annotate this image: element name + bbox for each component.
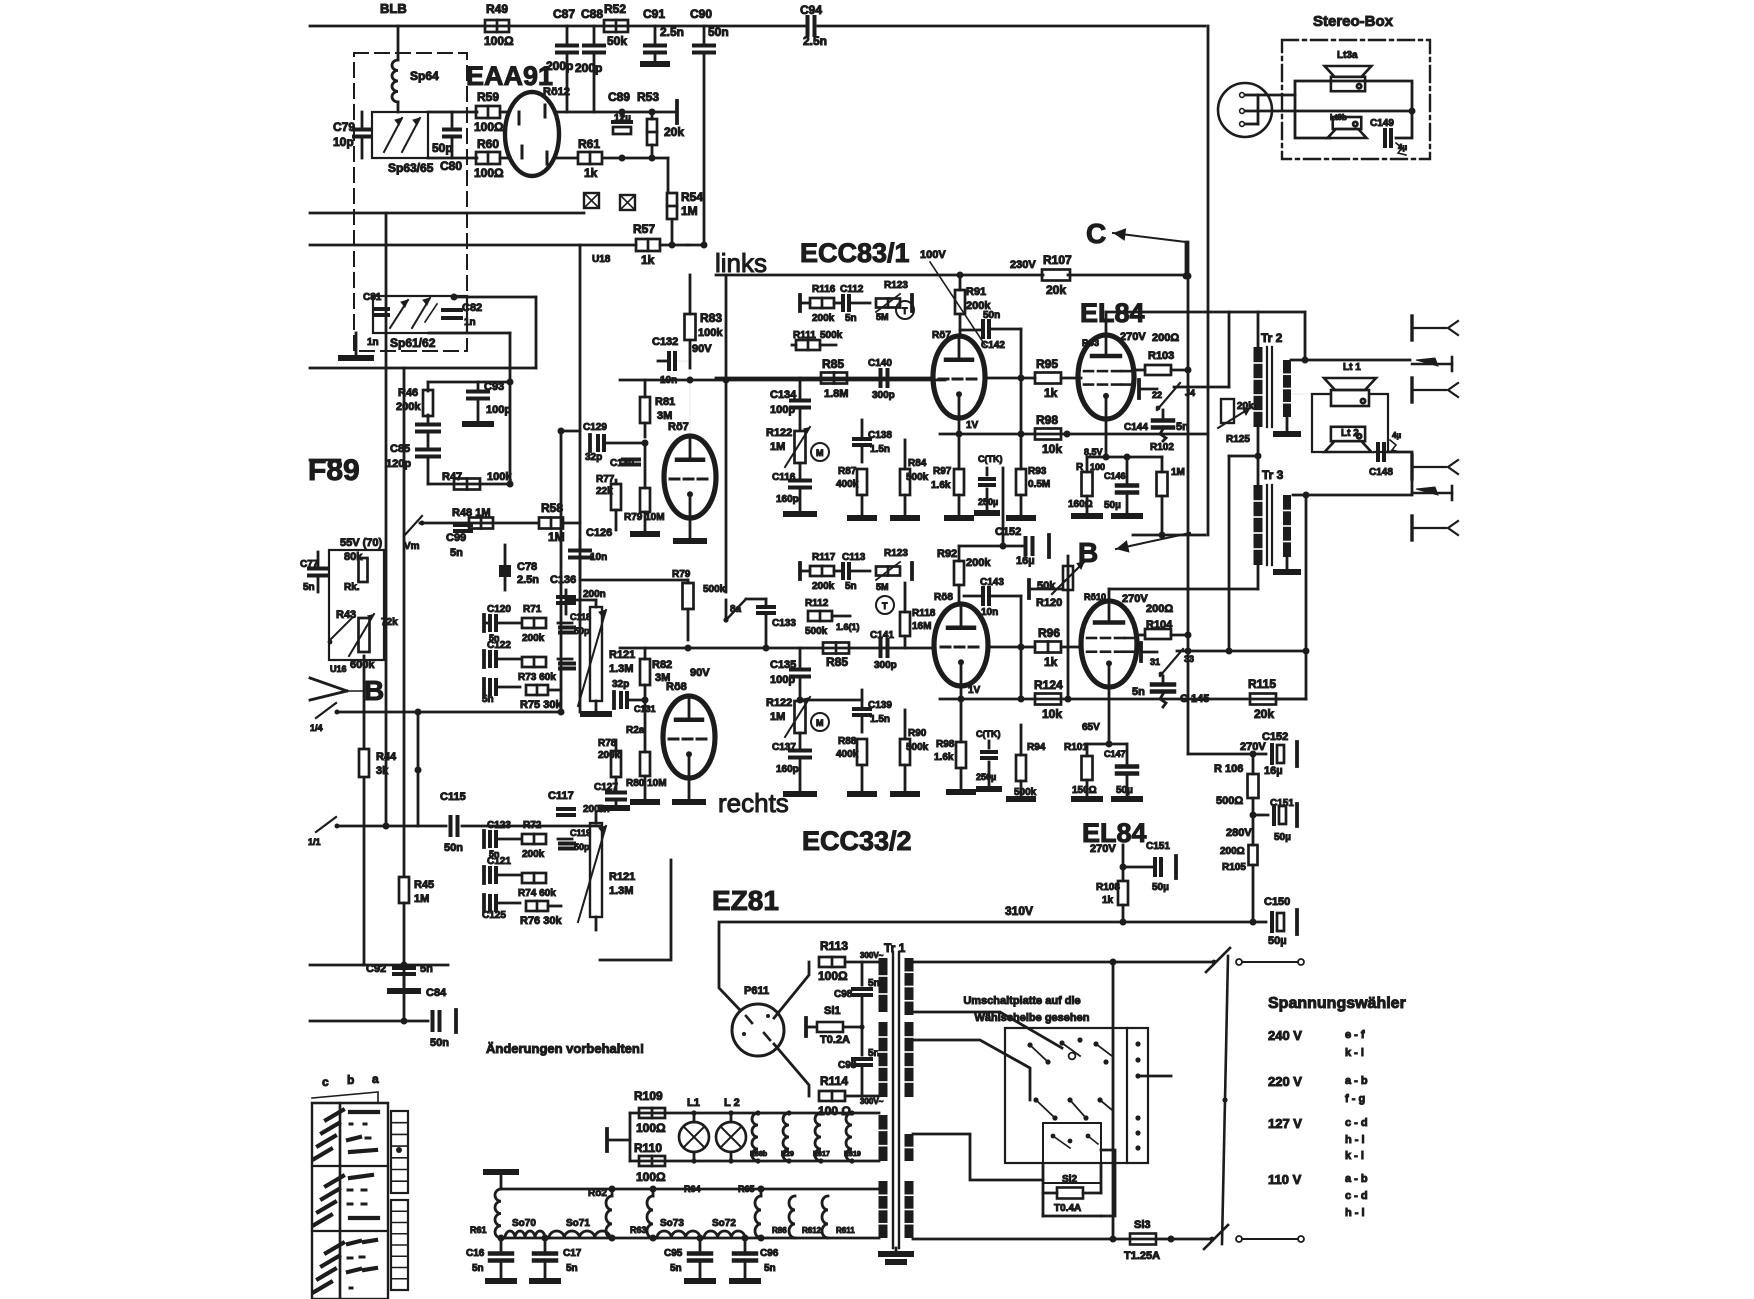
wire tuned to R59 <box>428 112 477 158</box>
svg-text:R: R <box>1076 462 1084 473</box>
svg-text:C81: C81 <box>363 292 382 303</box>
svg-text:C147: C147 <box>1104 749 1126 759</box>
resistor R100 <box>1068 457 1105 512</box>
svg-text:R79 10M: R79 10M <box>624 512 665 523</box>
Tr1 winding lower left <box>879 1115 888 1238</box>
svg-text:80k: 80k <box>344 551 363 563</box>
wire grid link lower <box>797 697 863 704</box>
svg-text:Spannungswähler: Spannungswähler <box>1268 995 1406 1012</box>
capacitor C149 <box>1370 118 1407 155</box>
wire cathode row 1V <box>940 420 1208 438</box>
wire speaker common right <box>1388 452 1412 495</box>
wire C115 to lower pot <box>595 812 598 930</box>
jack pair top <box>1412 316 1458 340</box>
coil R611b vertical <box>836 1226 855 1235</box>
svg-text:R121: R121 <box>609 649 635 661</box>
svg-text:c: c <box>322 1075 329 1089</box>
svg-text:1k: 1k <box>584 166 598 180</box>
svg-text:1M: 1M <box>1171 467 1185 478</box>
capacitor C92 <box>363 962 448 992</box>
svg-text:100Ω: 100Ω <box>474 120 504 134</box>
wire bus y712 <box>337 709 565 716</box>
svg-text:R617: R617 <box>813 1151 830 1158</box>
svg-text:R124: R124 <box>1034 678 1063 692</box>
svg-text:C17: C17 <box>563 1248 582 1259</box>
svg-text:R112: R112 <box>805 598 829 609</box>
capacitor C80 <box>432 112 462 173</box>
label Aenderungen <box>486 1041 644 1056</box>
capacitor C113 <box>834 552 870 592</box>
svg-text:C78: C78 <box>517 561 537 573</box>
svg-text:50n: 50n <box>430 1037 449 1049</box>
svg-text:P611: P611 <box>744 985 769 997</box>
pot R125 <box>1218 399 1254 445</box>
svg-text:50µ: 50µ <box>1268 935 1287 947</box>
svg-text:C138: C138 <box>868 430 892 441</box>
speaker Lt1 <box>1324 362 1376 406</box>
wire DIN to box <box>1258 94 1295 97</box>
svg-text:R57: R57 <box>633 222 655 236</box>
svg-text:C16: C16 <box>466 1248 485 1259</box>
pot R123 lower <box>876 548 912 592</box>
svg-text:R121: R121 <box>609 871 635 883</box>
svg-text:Umschaltplatte auf die: Umschaltplatte auf die <box>963 995 1080 1007</box>
svg-text:8.5V: 8.5V <box>1084 447 1103 457</box>
svg-text:R46: R46 <box>398 387 418 399</box>
svg-text:C137: C137 <box>772 742 796 753</box>
capacitor C121 <box>484 856 520 883</box>
selector inner contacts <box>1051 1134 1098 1148</box>
mains switch lever <box>1222 956 1228 1244</box>
svg-text:100V: 100V <box>920 249 946 261</box>
svg-text:5n: 5n <box>845 581 857 592</box>
svg-text:C134: C134 <box>770 389 797 401</box>
resistor R71 <box>522 604 546 644</box>
svg-text:50p: 50p <box>574 626 590 636</box>
svg-text:R79: R79 <box>672 569 691 580</box>
resistor R47 <box>442 471 512 490</box>
svg-text:50µ: 50µ <box>1116 785 1133 796</box>
svg-text:R64: R64 <box>684 1184 701 1194</box>
svg-text:1.5n: 1.5n <box>870 714 890 725</box>
svg-text:55V (70): 55V (70) <box>340 537 383 549</box>
lamp L1 <box>679 1097 709 1164</box>
capacitor C127 <box>594 782 625 815</box>
capacitor CTK upper <box>978 454 1003 510</box>
tuned circuit Sp61/62 box <box>373 296 467 333</box>
svg-text:1n: 1n <box>367 337 379 348</box>
wire Tr2 sec low <box>1287 393 1312 395</box>
svg-text:R104: R104 <box>1146 619 1173 631</box>
wire filter rails <box>498 1186 880 1242</box>
svg-text:R61: R61 <box>470 1225 487 1235</box>
svg-text:h - i: h - i <box>1345 1207 1365 1219</box>
svg-text:10n: 10n <box>590 552 607 563</box>
wire y648 grid bus lower <box>620 645 935 652</box>
svg-text:50p: 50p <box>574 842 590 852</box>
svg-text:C91: C91 <box>643 7 665 21</box>
coil R61 vertical <box>470 1189 501 1238</box>
svg-text:R118: R118 <box>912 608 936 619</box>
svg-text:1k: 1k <box>1044 655 1058 669</box>
capacitor C93 <box>465 381 511 424</box>
resistor R94 <box>1014 725 1046 798</box>
svg-text:So71: So71 <box>566 1218 590 1229</box>
capacitor C96 <box>732 1235 779 1282</box>
triode R68 <box>934 592 988 686</box>
svg-text:R123: R123 <box>884 548 908 559</box>
capacitor C150 <box>1250 896 1298 947</box>
svg-text:R611: R611 <box>836 1226 855 1235</box>
svg-text:150Ω: 150Ω <box>1072 785 1097 796</box>
selector contacts lower <box>1033 1097 1112 1120</box>
vertical links feed <box>725 275 728 592</box>
pentode EL84 lower <box>1081 592 1137 687</box>
svg-text:20k: 20k <box>664 125 684 139</box>
capacitor C143 <box>964 577 1021 618</box>
wire Tr1 top right <box>913 959 1214 966</box>
resistor R73 <box>518 657 556 683</box>
svg-text:C95: C95 <box>664 1248 683 1259</box>
svg-text:R59: R59 <box>477 90 499 104</box>
svg-text:Vm: Vm <box>404 541 420 552</box>
heater coil b <box>781 1110 794 1163</box>
wire BLB drop <box>397 26 400 60</box>
wire bus y368 <box>310 367 536 370</box>
svg-text:R85: R85 <box>826 655 848 669</box>
svg-text:90V: 90V <box>690 667 710 679</box>
svg-text:Tr 2: Tr 2 <box>1261 331 1283 345</box>
svg-text:5n: 5n <box>566 1263 578 1274</box>
svg-text:R125: R125 <box>1226 434 1250 445</box>
svg-text:C(TK): C(TK) <box>976 729 1001 739</box>
wire Tr3 out to jacks <box>1293 493 1410 496</box>
svg-text:Lt3b: Lt3b <box>1330 113 1347 122</box>
svg-text:2.5n: 2.5n <box>660 25 684 39</box>
capacitor C97 <box>834 962 880 1030</box>
svg-text:R74 60k: R74 60k <box>518 888 556 899</box>
svg-text:R116: R116 <box>812 284 836 295</box>
svg-text:50n: 50n <box>708 25 729 39</box>
svg-text:c - d: c - d <box>1345 1190 1368 1202</box>
svg-text:1.6(1): 1.6(1) <box>836 622 860 632</box>
vertical x510 down <box>509 382 512 484</box>
wire Tr2 secondary out <box>1291 357 1410 364</box>
svg-text:C87: C87 <box>553 7 575 21</box>
svg-text:ECC83/1: ECC83/1 <box>800 238 910 268</box>
svg-text:Rö12: Rö12 <box>543 86 570 98</box>
transformer Tr1 label <box>884 941 906 955</box>
label 100V arrow <box>920 249 985 345</box>
svg-text:R93: R93 <box>1028 466 1047 477</box>
svg-text:10k: 10k <box>1042 707 1062 721</box>
coil R611 vertical <box>802 1196 828 1238</box>
svg-text:1n: 1n <box>464 317 476 328</box>
vertical x386 <box>383 213 390 830</box>
svg-text:100k: 100k <box>487 471 512 483</box>
svg-text:C94: C94 <box>800 3 822 17</box>
grounds EL84 upper <box>1074 513 1140 519</box>
svg-text:R29: R29 <box>781 1151 794 1158</box>
lamp L2 <box>716 1097 746 1164</box>
resistor R117 <box>800 552 836 592</box>
capacitor C118 <box>558 612 591 636</box>
svg-text:R111: R111 <box>793 330 816 341</box>
resistor R90 <box>900 710 929 790</box>
pot R122 upper <box>766 427 810 467</box>
resistor R77 <box>596 474 621 530</box>
dial terminal strip <box>391 1111 408 1290</box>
svg-text:50µ: 50µ <box>1274 832 1291 843</box>
wire anode R92 up <box>959 543 1023 550</box>
capacitor C116 <box>772 463 810 510</box>
capacitor C122 <box>484 640 520 667</box>
svg-text:500k: 500k <box>805 626 828 637</box>
coil R612 vertical <box>772 1196 795 1238</box>
svg-text:110 V: 110 V <box>1268 1172 1302 1187</box>
svg-text:R110: R110 <box>634 1141 662 1155</box>
resistor R124 <box>1034 678 1063 721</box>
svg-text:R123: R123 <box>884 280 908 291</box>
IF transformer dashed box <box>354 53 467 351</box>
resistor R87 <box>836 466 867 515</box>
resistor R118 <box>900 583 936 648</box>
svg-text:200k: 200k <box>598 750 621 761</box>
wire bus y245 <box>310 242 688 249</box>
svg-text:200k: 200k <box>812 581 835 592</box>
svg-text:Tr 3: Tr 3 <box>1262 468 1284 482</box>
svg-text:1.6k: 1.6k <box>931 480 951 491</box>
svg-text:C150: C150 <box>1264 896 1290 908</box>
vertical x404 <box>402 368 405 876</box>
svg-text:C85: C85 <box>390 443 410 455</box>
wire R48 row <box>420 522 580 525</box>
svg-text:20k: 20k <box>1254 707 1274 721</box>
capacitor C139 <box>854 690 892 732</box>
svg-text:Rö10: Rö10 <box>1084 592 1106 602</box>
capacitor C132 <box>652 336 690 386</box>
voltage row 127V <box>1268 1116 1368 1162</box>
svg-text:20k: 20k <box>1046 283 1066 297</box>
grounds under ECC33 input <box>786 791 917 797</box>
tuned circuit Sp63/65 box <box>372 112 428 158</box>
svg-text:500k: 500k <box>906 472 929 483</box>
svg-text:C133: C133 <box>772 618 796 629</box>
resistor R116 <box>800 284 836 324</box>
fuse Si3 <box>1124 1219 1160 1262</box>
resistor Rk 80k <box>344 551 368 593</box>
resistor R97 <box>931 418 964 515</box>
svg-text:1V: 1V <box>968 685 981 696</box>
label 8.5V upper <box>1084 447 1103 457</box>
svg-text:1.6k: 1.6k <box>934 752 954 763</box>
triode Ro8 <box>663 681 715 778</box>
label 55V(70) <box>340 537 383 549</box>
svg-text:Si1: Si1 <box>824 1005 841 1017</box>
vertical x561 <box>558 428 581 713</box>
svg-text:Rö7: Rö7 <box>668 421 689 433</box>
pot R120 <box>1029 562 1084 609</box>
wire C90 junction <box>688 242 708 249</box>
fuse Si1 <box>806 1005 862 1046</box>
svg-text:1k: 1k <box>641 253 655 267</box>
svg-text:1.3M: 1.3M <box>609 663 633 675</box>
svg-text:T1.25A: T1.25A <box>1124 1250 1160 1262</box>
svg-text:50µ: 50µ <box>1152 882 1169 893</box>
svg-text:R71: R71 <box>523 604 542 615</box>
pot R122 lower <box>766 697 810 737</box>
dial top lines <box>312 1092 388 1103</box>
dial ticks row1 <box>314 1110 343 1159</box>
svg-text:C123: C123 <box>487 820 511 831</box>
wire 230V rail <box>716 272 1190 280</box>
svg-text:Rö8: Rö8 <box>934 592 953 603</box>
capacitor C141 <box>870 630 897 671</box>
speaker Lt3b <box>1328 113 1367 138</box>
capacitor C112 <box>834 284 870 324</box>
capacitor C85 <box>386 433 439 484</box>
svg-text:8a: 8a <box>730 604 742 615</box>
svg-text:EZ81: EZ81 <box>712 885 779 916</box>
switch 1/1 <box>308 817 340 847</box>
voltage row 110V <box>1268 1172 1368 1219</box>
svg-text:Wählscheibe gesehen: Wählscheibe gesehen <box>975 1012 1090 1024</box>
capacitor C99 <box>446 525 471 559</box>
svg-text:2.5n: 2.5n <box>803 34 827 48</box>
panel dots column <box>1135 1041 1140 1150</box>
circle T lower <box>876 596 894 614</box>
svg-text:250µ: 250µ <box>978 497 998 507</box>
svg-text:C135: C135 <box>770 659 796 671</box>
svg-text:5n: 5n <box>303 582 315 593</box>
svg-text:C92: C92 <box>366 963 386 975</box>
svg-text:C112: C112 <box>840 284 864 295</box>
svg-text:a - b: a - b <box>1345 1075 1368 1087</box>
svg-text:90V: 90V <box>692 343 712 355</box>
resistor R95 <box>985 357 1081 400</box>
svg-text:So73: So73 <box>660 1218 684 1229</box>
coil So71 <box>549 1218 610 1238</box>
wire 270V node <box>1188 751 1257 758</box>
capacitor C129 <box>583 422 649 463</box>
resistor R82 <box>640 648 672 700</box>
resistor R83 <box>685 275 724 368</box>
wire Sp61/62 top right <box>451 294 537 369</box>
svg-text:R95: R95 <box>1036 357 1058 371</box>
svg-text:Rö3: Rö3 <box>1082 338 1099 348</box>
svg-text:C99: C99 <box>446 532 466 544</box>
svg-text:C98: C98 <box>838 1060 857 1071</box>
svg-text:R54: R54 <box>681 190 703 204</box>
crystal box N2 <box>620 195 635 210</box>
vertical x1113 <box>1112 962 1115 1239</box>
Tr1 core <box>893 952 899 1248</box>
switch 1/4 <box>310 703 340 733</box>
panel wire to bottom <box>1140 1076 1171 1239</box>
capacitor C148 <box>1369 431 1401 478</box>
svg-text:1.5n: 1.5n <box>870 444 890 455</box>
label ECC33/2 <box>802 826 912 856</box>
wire R61 down to R54 <box>671 192 673 196</box>
resistor R107 <box>1010 253 1072 297</box>
svg-text:C122: C122 <box>487 640 511 651</box>
resistor R81 <box>640 380 675 437</box>
svg-text:160p: 160p <box>776 494 799 505</box>
wire y535 <box>1133 532 1205 539</box>
svg-text:C125: C125 <box>482 910 506 921</box>
svg-text:5n: 5n <box>472 1263 484 1274</box>
wire panel to Si2 <box>1043 1150 1115 1216</box>
capacitor C88 <box>575 7 604 112</box>
svg-text:300p: 300p <box>874 660 897 671</box>
pot R121 lower <box>578 823 635 922</box>
switch 31/33 lower <box>1141 643 1194 676</box>
svg-text:So72: So72 <box>712 1218 736 1229</box>
capacitor C46a <box>417 415 439 432</box>
vertical RLL x364 <box>363 656 366 965</box>
resistor R105 <box>1220 815 1258 922</box>
svg-text:1k: 1k <box>1102 895 1114 906</box>
wire R47 row <box>428 481 514 488</box>
svg-text:R113: R113 <box>820 939 848 953</box>
resistor R135 <box>823 643 935 670</box>
vertical x1068 from R120 <box>1065 556 1072 703</box>
resistor R54 <box>667 190 703 245</box>
svg-text:5n: 5n <box>764 1263 776 1274</box>
capacitor C17 <box>532 1238 582 1281</box>
wire P611 to R113 <box>770 962 809 1018</box>
svg-text:C152: C152 <box>1262 731 1288 743</box>
svg-text:0.5M: 0.5M <box>1028 479 1050 490</box>
svg-text:Tr 1: Tr 1 <box>884 941 906 955</box>
transformer Tr3 <box>1254 468 1299 572</box>
resistor R88 <box>836 736 867 790</box>
svg-text:200p: 200p <box>575 61 602 75</box>
svg-text:Stereo-Box: Stereo-Box <box>1313 13 1394 30</box>
capacitor C126 <box>570 527 612 575</box>
svg-text:400k: 400k <box>836 479 859 490</box>
capacitor C138 <box>854 420 892 462</box>
svg-text:C77: C77 <box>300 559 319 570</box>
coil R86 vertical <box>738 1184 761 1238</box>
capacitor C134 <box>770 378 809 430</box>
dial digits row2 <box>348 1175 378 1218</box>
svg-text:C139: C139 <box>868 700 892 711</box>
capacitor C117 <box>548 790 606 815</box>
svg-text:1V: 1V <box>966 420 979 431</box>
svg-text:C90: C90 <box>690 7 712 21</box>
svg-text:R68b: R68b <box>750 1151 767 1158</box>
svg-text:C88: C88 <box>581 7 603 21</box>
svg-text:R60: R60 <box>477 137 499 151</box>
svg-text:C: C <box>1086 218 1106 249</box>
vertical x418 <box>415 712 422 826</box>
svg-text:1/4: 1/4 <box>310 723 323 733</box>
pot R121 upper <box>578 607 635 714</box>
capacitor C142 <box>960 310 1021 351</box>
label 280V <box>1226 827 1252 839</box>
svg-text:C115: C115 <box>440 791 466 803</box>
svg-text:72k: 72k <box>381 617 398 628</box>
label EAA91 <box>466 61 553 91</box>
svg-text:200n: 200n <box>583 589 606 600</box>
svg-text:J4: J4 <box>1185 388 1195 398</box>
resistor R78 <box>598 738 621 790</box>
svg-text:16µ: 16µ <box>1264 765 1283 777</box>
svg-text:5n: 5n <box>868 978 880 989</box>
wire EAA91 diode out <box>557 155 668 193</box>
wire speakers loop <box>1312 394 1388 452</box>
